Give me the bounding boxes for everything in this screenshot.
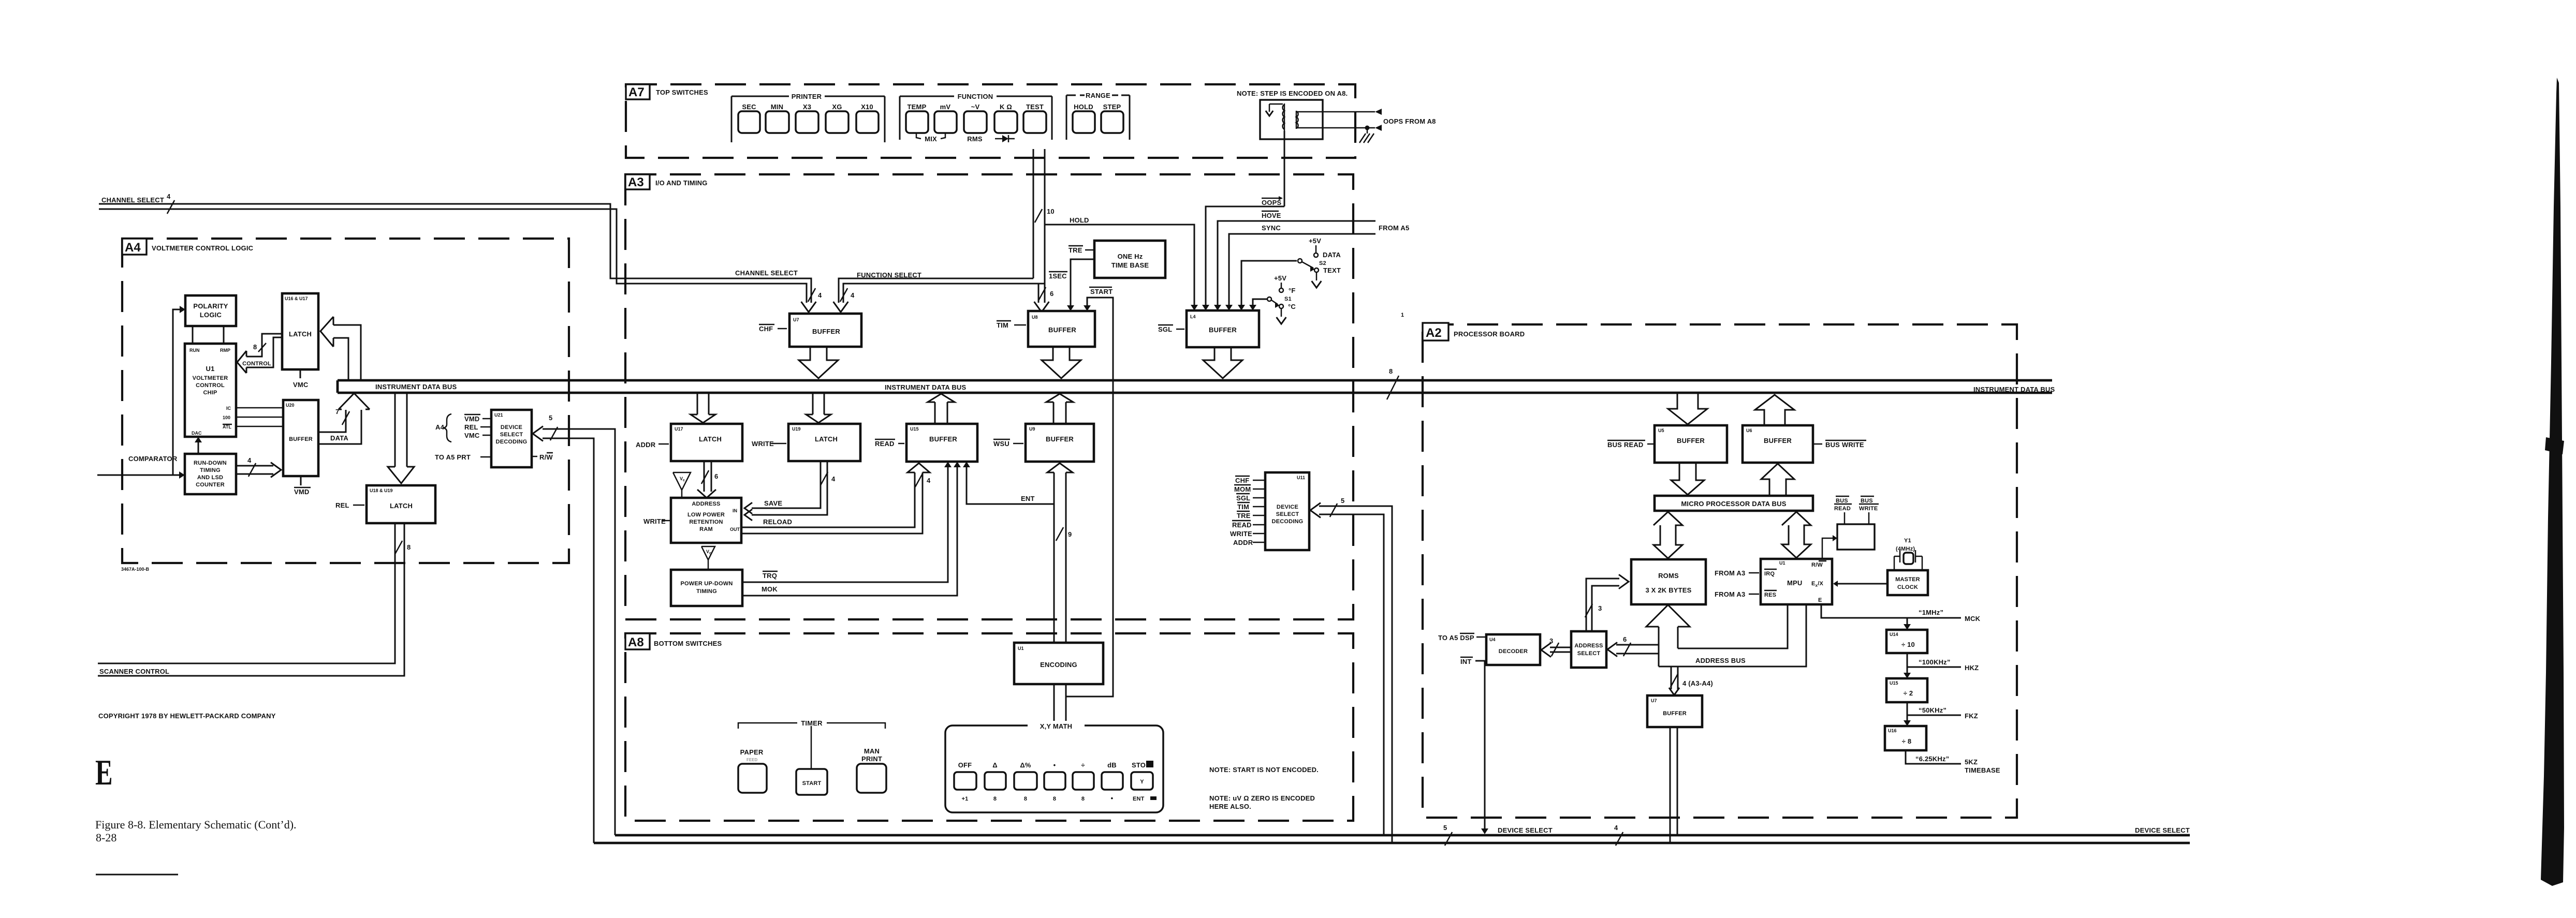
svg-text:SELECT: SELECT xyxy=(500,432,523,438)
svg-text:6: 6 xyxy=(1050,290,1053,298)
switch S1 C contact xyxy=(1279,304,1283,308)
svg-text:HOLD: HOLD xyxy=(1070,216,1089,224)
svg-text:RUN-DOWN: RUN-DOWN xyxy=(194,460,227,466)
switch S2 arm with arrow xyxy=(1302,262,1313,268)
svg-text:FEED: FEED xyxy=(747,758,758,762)
slash 10 on switch bus xyxy=(1035,209,1042,223)
wire DAC chip to counter xyxy=(198,441,199,454)
switch START xyxy=(796,769,827,795)
svg-text:SELECT: SELECT xyxy=(1577,650,1601,657)
svg-text:+1: +1 xyxy=(962,796,969,802)
switch S2 common contact xyxy=(1298,259,1302,263)
svg-text:DATA: DATA xyxy=(330,434,348,442)
svg-text:U1: U1 xyxy=(206,365,214,373)
svg-text:mV: mV xyxy=(940,103,951,111)
svg-text:MICRO PROCESSOR DATA BUS: MICRO PROCESSOR DATA BUS xyxy=(1681,500,1786,508)
svg-text:U1: U1 xyxy=(1779,560,1785,566)
svg-text:NOTE: uV Ω ZERO IS ENCODED: NOTE: uV Ω ZERO IS ENCODED xyxy=(1209,794,1315,802)
svg-text:I/O AND TIMING: I/O AND TIMING xyxy=(655,179,708,187)
transformer T1 wiper arrow xyxy=(1269,104,1270,112)
svg-text:BUS READ: BUS READ xyxy=(1607,441,1644,449)
svg-text:A4: A4 xyxy=(435,423,445,431)
svg-text:LATCH: LATCH xyxy=(289,330,312,338)
power up-down timing box xyxy=(671,570,742,606)
board A2 reference designator box xyxy=(1423,323,1448,340)
svg-text:U18 & U19: U18 & U19 xyxy=(370,488,393,493)
diode symbol under K-ohm switch xyxy=(995,138,1002,140)
svg-text:SGL: SGL xyxy=(1158,325,1172,333)
svg-text:A4: A4 xyxy=(125,241,141,255)
open arrow into U11 xyxy=(1310,503,1321,518)
instrument data bus left end xyxy=(336,380,339,393)
bus run-down counter to buffer U20 xyxy=(236,465,273,467)
svg-text:RELOAD: RELOAD xyxy=(763,518,792,526)
svg-text:CHANNEL SELECT: CHANNEL SELECT xyxy=(101,196,164,204)
slash 4 A3-A4 xyxy=(1671,674,1678,687)
svg-text:U21: U21 xyxy=(494,412,503,418)
svg-text:DEVICE: DEVICE xyxy=(1277,504,1298,510)
svg-text:U6: U6 xyxy=(1746,428,1752,433)
svg-text:LATCH: LATCH xyxy=(390,502,413,510)
wire switch bus left from A7 xyxy=(1033,149,1034,278)
board A2 dashed outline xyxy=(1423,324,2017,818)
svg-text:ADDRESS: ADDRESS xyxy=(1574,643,1603,649)
wire 1SEC from time base to U8 xyxy=(1071,259,1094,306)
switch S1 arm with arrow xyxy=(1271,300,1278,304)
svg-text:U9: U9 xyxy=(1029,426,1035,432)
svg-text:4: 4 xyxy=(851,291,855,299)
slash 7 on DATA bus xyxy=(342,411,349,425)
switch S2 TEXT contact xyxy=(1314,268,1319,272)
wire VMC below latch xyxy=(300,369,301,378)
slash 4 on channel select at left xyxy=(167,200,174,214)
switch HOLD xyxy=(1073,111,1095,133)
hollow arrow U9 to instrument data bus xyxy=(1053,402,1055,424)
hollow arrow head DATA into instrument data bus xyxy=(339,393,370,409)
svg-text:DAC: DAC xyxy=(192,431,202,436)
svg-text:ENT: ENT xyxy=(1133,796,1145,802)
open arrow into U21 xyxy=(533,426,543,441)
switch mV xyxy=(934,111,957,133)
buffer U5 box xyxy=(1655,425,1727,463)
chassis ground symbol xyxy=(1367,128,1368,134)
one Hz time base box xyxy=(1094,241,1165,278)
svg-text:K Ω: K Ω xyxy=(1000,103,1012,111)
svg-text:U15: U15 xyxy=(1890,680,1898,686)
svg-text:BUFFER: BUFFER xyxy=(1048,326,1076,334)
wire device select pair lower (A4) xyxy=(543,438,594,843)
hollow arrow mpu data bus into U6 xyxy=(1761,464,1794,496)
svg-text:INT: INT xyxy=(1460,658,1472,665)
svg-text:COPYRIGHT 1978 BY HEWLETT-PACK: COPYRIGHT 1978 BY HEWLETT-PACKARD COMPAN… xyxy=(98,712,276,720)
switch S2 DATA contact xyxy=(1314,253,1318,257)
solid arrow HOLD into U4 buffer xyxy=(1191,305,1198,310)
wire chip ATL to buffer xyxy=(236,426,283,427)
svg-text:IRQ: IRQ xyxy=(1764,571,1775,577)
svg-text:BUS: BUS xyxy=(1861,498,1873,504)
svg-text:÷ 8: ÷ 8 xyxy=(1902,737,1912,745)
svg-text:5: 5 xyxy=(549,414,552,422)
svg-text:INSTRUMENT DATA BUS: INSTRUMENT DATA BUS xyxy=(375,383,457,391)
svg-text:Ex/X: Ex/X xyxy=(1811,581,1823,588)
solid arrow START into U8 xyxy=(1084,305,1091,311)
svg-text:START: START xyxy=(802,780,822,787)
wire encoding output to keys left xyxy=(1053,684,1055,723)
buffer U7 xyxy=(789,314,861,347)
wire U15 to U16 xyxy=(1907,702,1908,722)
svg-text:Figure 8-8. Elementary Schema: Figure 8-8. Elementary Schematic (Cont’d… xyxy=(95,818,297,831)
svg-text:LOGIC: LOGIC xyxy=(200,311,222,319)
switch delta percent xyxy=(1014,772,1037,790)
svg-text:SELECT: SELECT xyxy=(1276,511,1299,517)
svg-text:PAPER: PAPER xyxy=(740,748,764,756)
slash 9 on encoding bus xyxy=(1056,527,1063,541)
switch OFF xyxy=(954,772,976,790)
svg-text:NOTE: STEP IS ENCODED ON A8.: NOTE: STEP IS ENCODED ON A8. xyxy=(1237,90,1348,97)
svg-text:5: 5 xyxy=(1443,824,1447,832)
polarity logic box xyxy=(185,295,236,326)
svg-text:IC: IC xyxy=(226,406,231,411)
buffer U15 box xyxy=(906,424,977,462)
svg-text:RETENTION: RETENTION xyxy=(689,519,723,525)
svg-text:CLOCK: CLOCK xyxy=(1897,584,1918,590)
wire encoding output to keys right xyxy=(1065,684,1067,723)
open arrow channel select into U7 xyxy=(801,302,816,312)
svg-text:Δ: Δ xyxy=(992,761,998,769)
svg-text:“100KHz”: “100KHz” xyxy=(1919,658,1951,666)
bus latch U17 to RAM address xyxy=(704,461,705,492)
svg-text:U16 & U17: U16 & U17 xyxy=(285,296,308,301)
wire latch data input from bus lower xyxy=(333,338,348,380)
svg-text:WRITE: WRITE xyxy=(1859,506,1878,512)
svg-text:SCANNER CONTROL: SCANNER CONTROL xyxy=(99,668,169,675)
switch S1 common contact xyxy=(1267,297,1271,301)
svg-text:RANGE: RANGE xyxy=(1086,92,1110,99)
svg-text:Y1: Y1 xyxy=(1904,538,1911,544)
svg-text:ENCODING: ENCODING xyxy=(1040,661,1077,669)
slash 6 on address select bus xyxy=(1623,643,1631,656)
wire INT to device select bus xyxy=(1475,661,1485,831)
svg-text:4: 4 xyxy=(167,193,171,200)
bus decoder to address select lower xyxy=(1550,652,1571,653)
Vcc triangle upper xyxy=(673,472,691,490)
svg-text:A2: A2 xyxy=(1426,326,1442,340)
svg-text:8: 8 xyxy=(1081,796,1085,802)
buffer U4 xyxy=(1187,310,1259,347)
bus address select to ROMS xyxy=(1586,579,1619,631)
svg-text:HOVE: HOVE xyxy=(1262,212,1281,219)
wire comparator input xyxy=(97,475,180,476)
svg-text:CONTROL: CONTROL xyxy=(242,361,271,367)
svg-text:X,Y MATH: X,Y MATH xyxy=(1040,722,1073,730)
board A7 reference designator box xyxy=(626,84,650,99)
svg-text:FROM A3: FROM A3 xyxy=(1715,590,1745,598)
control bus hollow arrow latch to chip xyxy=(246,334,282,357)
svg-text:ADDRESS BUS: ADDRESS BUS xyxy=(1695,657,1746,664)
svg-text:NOTE: START IS NOT ENCODED.: NOTE: START IS NOT ENCODED. xyxy=(1209,766,1319,774)
wire ENT into U15 xyxy=(967,462,1054,504)
hollow arrow U6 into bus xyxy=(1755,395,1794,425)
bus into address select right lower xyxy=(1616,653,1659,655)
svg-text:PRINTER: PRINTER xyxy=(792,93,822,100)
svg-text:•: • xyxy=(1111,794,1114,802)
group bracket TIMER xyxy=(738,723,797,729)
wire chip 100 to buffer xyxy=(236,417,283,418)
switch SEC xyxy=(738,111,760,133)
svg-text:“50KHz”: “50KHz” xyxy=(1919,706,1946,714)
svg-text:BUFFER: BUFFER xyxy=(1663,710,1687,717)
encoding box U1 xyxy=(1014,643,1103,684)
svg-text:U14: U14 xyxy=(1890,632,1898,637)
svg-text:U20: U20 xyxy=(286,403,295,408)
hollow double arrow data bus to MPU xyxy=(1782,512,1811,558)
svg-text:TIMER: TIMER xyxy=(801,719,823,727)
buffer U6 box xyxy=(1743,425,1813,463)
svg-text:READ: READ xyxy=(1834,506,1851,512)
svg-text:WRITE: WRITE xyxy=(1230,530,1252,538)
wire OOPS lower from transformer xyxy=(1296,127,1375,129)
svg-text:XG: XG xyxy=(832,103,842,111)
slash 4 on counter bus xyxy=(248,463,256,477)
transformer T1 secondary winding xyxy=(1296,111,1297,129)
svg-text:VOLTMETER: VOLTMETER xyxy=(193,375,228,381)
wire polarity logic to chip left xyxy=(192,326,194,344)
wire S2 common into U4 buffer xyxy=(1241,261,1297,305)
svg-text:“1MHz”: “1MHz” xyxy=(1919,609,1943,616)
slash 4 into U7 function xyxy=(840,288,847,302)
svg-text:R/W: R/W xyxy=(1811,562,1823,568)
svg-text:U5: U5 xyxy=(1658,428,1664,433)
svg-text:“6.25KHz”: “6.25KHz” xyxy=(1915,755,1949,763)
wire device select pair upper (A4) xyxy=(543,429,615,835)
svg-text:MPU: MPU xyxy=(1787,579,1803,587)
svg-text:VMD: VMD xyxy=(294,488,310,496)
svg-text:OFF: OFF xyxy=(958,761,972,769)
svg-text:POWER UP-DOWN: POWER UP-DOWN xyxy=(681,581,733,587)
address select box xyxy=(1571,631,1606,668)
svg-text:4: 4 xyxy=(927,477,931,484)
open arrow into decoder xyxy=(1541,643,1551,657)
svg-text:1: 1 xyxy=(1401,312,1404,318)
svg-text:MOM: MOM xyxy=(1234,485,1251,493)
wire from transformer primary down to OOPS net xyxy=(1284,131,1285,206)
svg-text:WSU: WSU xyxy=(993,440,1009,448)
wire MPU address out left xyxy=(1678,604,1788,648)
wire OOPS xyxy=(1206,206,1284,305)
slash 5 on device select (A3) xyxy=(1330,504,1337,517)
wire chip IC to buffer xyxy=(236,407,283,409)
svg-text:OOPS FROM A8: OOPS FROM A8 xyxy=(1383,117,1436,125)
svg-text:TIMEBASE: TIMEBASE xyxy=(1965,766,2000,774)
Vcc triangle lower xyxy=(701,546,715,560)
wire HOME from A5 xyxy=(1218,221,1375,305)
slash 4 on SAVE bus xyxy=(821,472,828,485)
svg-text:BUS: BUS xyxy=(1836,498,1848,504)
svg-text:MOK: MOK xyxy=(762,585,778,593)
low power retention RAM box xyxy=(671,498,741,543)
svg-text:LOW POWER: LOW POWER xyxy=(687,512,725,518)
switch TEST xyxy=(1023,111,1046,133)
slash 8 on scanner control bus xyxy=(395,541,402,554)
wire VMD below buffer xyxy=(300,476,302,485)
svg-text:STO: STO xyxy=(1132,761,1146,769)
bus into address select right upper xyxy=(1616,644,1659,646)
switch group bracket FUNCTION xyxy=(900,96,954,97)
svg-text:5KZ: 5KZ xyxy=(1965,758,1978,766)
slash 3 on ROMS select bus xyxy=(1585,604,1592,617)
svg-text:CHF: CHF xyxy=(1235,477,1249,484)
wire R/W from MPU xyxy=(1822,538,1833,559)
switch divide xyxy=(1073,772,1094,790)
wire FUNCTION SELECT upper xyxy=(839,278,1033,303)
svg-text:CHF: CHF xyxy=(759,325,773,333)
svg-text:MAN: MAN xyxy=(864,747,880,755)
label BUS WRITE with overline xyxy=(1813,443,1822,445)
svg-text:4: 4 xyxy=(818,291,822,299)
board A8 reference designator box xyxy=(625,633,650,649)
svg-text:DEVICE SELECT: DEVICE SELECT xyxy=(2135,826,2190,834)
wire SAVE upper xyxy=(752,461,821,508)
svg-text:4: 4 xyxy=(831,475,836,483)
svg-text:TO A5 PRT: TO A5 PRT xyxy=(435,453,471,461)
svg-text:•: • xyxy=(1053,761,1056,769)
wire latch data input from bus upper xyxy=(333,325,361,380)
wire device select lower into U11 xyxy=(1319,514,1384,835)
svg-text:VMC: VMC xyxy=(293,381,309,389)
svg-text:(4MHz): (4MHz) xyxy=(1896,546,1915,552)
svg-text:HOLD: HOLD xyxy=(1074,103,1093,111)
wire CHANNEL SELECT upper xyxy=(99,204,811,303)
bus drop to buffer U7 xyxy=(1671,667,1672,689)
divider U14 box xyxy=(1886,630,1927,653)
bus decoder to address select upper xyxy=(1550,647,1571,648)
svg-text:READ: READ xyxy=(875,440,895,448)
svg-text:ADDR: ADDR xyxy=(1233,539,1253,546)
instrument data bus lower line xyxy=(338,392,2052,394)
device select decoding U21 box xyxy=(491,410,532,467)
wire 6-wire drop into U8 xyxy=(1038,284,1040,303)
svg-text:INSTRUMENT DATA BUS: INSTRUMENT DATA BUS xyxy=(1973,386,2055,393)
svg-text:U15: U15 xyxy=(910,426,919,432)
svg-text:TOP SWITCHES: TOP SWITCHES xyxy=(656,88,708,96)
svg-text:X10: X10 xyxy=(861,103,873,111)
instrument data bus upper line xyxy=(338,379,2052,382)
board A8 dashed outline xyxy=(625,633,1353,821)
svg-text:AND LSD: AND LSD xyxy=(197,475,223,481)
svg-text:U19: U19 xyxy=(792,426,801,432)
svg-text:VOLTMETER CONTROL LOGIC: VOLTMETER CONTROL LOGIC xyxy=(152,244,254,252)
svg-text:6: 6 xyxy=(714,472,718,480)
slash 3 decoder bus xyxy=(1552,643,1559,656)
svg-text:TIMING: TIMING xyxy=(200,467,221,473)
slash 6 into U8 xyxy=(1038,287,1046,301)
svg-text:ROMS: ROMS xyxy=(1658,572,1679,580)
hollow arrow head RELOAD into buffer U15 xyxy=(908,463,930,472)
buffer U8 xyxy=(1028,311,1095,347)
svg-text:~V: ~V xyxy=(971,103,980,111)
svg-text:MASTER: MASTER xyxy=(1895,576,1920,583)
svg-text:8: 8 xyxy=(993,796,997,802)
wire buffer U7 output right xyxy=(1677,727,1678,835)
svg-text:L4: L4 xyxy=(1190,314,1196,319)
device select bus upper line xyxy=(615,834,2190,837)
svg-text:ATL: ATL xyxy=(223,424,231,430)
svg-text:1SEC: 1SEC xyxy=(1049,272,1067,280)
svg-text:U1: U1 xyxy=(1018,646,1024,651)
switch PAPER xyxy=(738,764,767,793)
svg-text:8: 8 xyxy=(407,543,411,551)
wire U14 to U15 xyxy=(1907,653,1908,674)
svg-text:4 (A3-A4): 4 (A3-A4) xyxy=(1682,679,1713,687)
switch STO Y xyxy=(1131,772,1153,790)
wire RELOAD lower xyxy=(741,472,923,534)
svg-text:100: 100 xyxy=(223,415,230,420)
svg-text:OOPS: OOPS xyxy=(1262,199,1281,206)
svg-text:MIN: MIN xyxy=(771,103,783,111)
wire TEXT contact to open ground xyxy=(1316,272,1318,280)
micro processor data bus box xyxy=(1655,496,1813,511)
svg-text:S2: S2 xyxy=(1319,260,1326,266)
svg-text:E: E xyxy=(95,753,113,793)
hollow arrow U4 to instrument data bus xyxy=(1203,347,1242,378)
wire master clock to MPU xyxy=(1837,583,1887,585)
svg-text:BUFFER: BUFFER xyxy=(812,328,840,335)
svg-text:dB: dB xyxy=(1107,761,1117,769)
svg-text:TIM: TIM xyxy=(1237,503,1249,511)
svg-text:6: 6 xyxy=(1623,635,1627,643)
svg-text:READ: READ xyxy=(1232,521,1252,529)
open arrow switch bus into U8 xyxy=(1034,302,1049,312)
group box X,Y MATH xyxy=(945,725,1163,812)
svg-text:8: 8 xyxy=(1389,367,1393,375)
device select decoding U11 box xyxy=(1265,472,1309,550)
latch U18 U19 box xyxy=(367,485,435,523)
svg-text:IN: IN xyxy=(733,508,737,513)
wire +5V to DATA contact xyxy=(1315,245,1317,253)
switch MAN PRINT xyxy=(857,764,886,793)
hollow arrow U5 into mpu data bus xyxy=(1671,463,1704,495)
wire SAVE lower xyxy=(752,461,827,515)
hollow arrow address bus into ROMS xyxy=(1646,605,1690,627)
wire device select upper into U11 xyxy=(1319,506,1392,843)
svg-text:3 X 2K BYTES: 3 X 2K BYTES xyxy=(1645,586,1691,594)
svg-text:LATCH: LATCH xyxy=(699,435,722,443)
solid arrow HOME into U4 buffer xyxy=(1214,305,1221,310)
hollow arrow U7 to instrument data bus xyxy=(799,347,838,378)
svg-text:PROCESSOR BOARD: PROCESSOR BOARD xyxy=(1454,330,1525,338)
svg-text:+5V: +5V xyxy=(1309,237,1321,245)
switch X6 xyxy=(826,111,848,133)
svg-text:CONTROL: CONTROL xyxy=(196,382,225,389)
wire CHANNEL SELECT lower xyxy=(99,209,807,303)
svg-text:INSTRUMENT DATA BUS: INSTRUMENT DATA BUS xyxy=(885,383,967,391)
svg-text:TEXT: TEXT xyxy=(1323,266,1341,274)
label R/W output xyxy=(532,456,537,457)
svg-text:START: START xyxy=(1090,288,1113,295)
svg-text:MIX: MIX xyxy=(925,135,937,143)
slash 4 on RELOAD bus xyxy=(915,473,923,487)
svg-text:3467A-100-B: 3467A-100-B xyxy=(121,567,150,572)
hollow double arrow data bus to ROMS xyxy=(1653,512,1682,558)
label MIX with tie lines xyxy=(916,133,921,139)
svg-text:RMP: RMP xyxy=(220,348,230,353)
svg-text:WRITE: WRITE xyxy=(643,517,666,525)
svg-text:U16: U16 xyxy=(1888,728,1897,733)
divider U16 box xyxy=(1885,726,1926,750)
svg-text:DEVICE SELECT: DEVICE SELECT xyxy=(1498,826,1553,834)
svg-text:U7: U7 xyxy=(1651,698,1657,703)
svg-text:TIME BASE: TIME BASE xyxy=(1111,261,1149,269)
